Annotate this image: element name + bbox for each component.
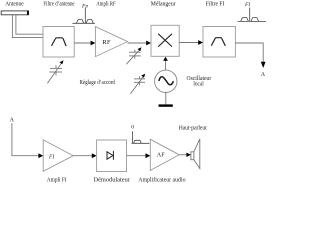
op-amp AF triangle: [150, 139, 179, 170]
antenna: [1, 11, 28, 15]
arrowhead up into mixer: [163, 57, 168, 61]
svg-text:local: local: [193, 82, 204, 88]
wire oscillator to ground: [165, 92, 167, 105]
wire FI amp to demodulator: [73, 155, 92, 157]
icon passband FI: [238, 8, 267, 22]
svg-text:Filtre FI: Filtre FI: [206, 1, 225, 7]
wire filter1 to RF amp: [74, 42, 91, 44]
block mixer: [151, 25, 179, 56]
arrowhead into FI filter: [198, 40, 203, 45]
svg-text:Ampli FI: Ampli FI: [47, 178, 67, 184]
svg-text:FI: FI: [48, 154, 55, 160]
bandpass curve (FI filter): [211, 38, 225, 46]
svg-text:Haut-parleur: Haut-parleur: [179, 125, 207, 131]
block demodulator: [97, 140, 127, 172]
trimmer capacitor under antenna filter: [47, 63, 62, 84]
op-amp RF triangle: [95, 27, 127, 57]
op-amp FI triangle: [43, 140, 73, 171]
svg-text:0: 0: [131, 125, 134, 131]
wire oscillator to mixer: [165, 60, 167, 70]
trimmer capacitor at oscillator: [130, 76, 145, 94]
bandpass curve (antenna filter): [52, 38, 67, 46]
wire FI filter output, right then down: [235, 43, 263, 62]
wire antenna lead (hollow): [12, 15, 43, 38]
ground: [159, 104, 173, 106]
icon passband Fp: [72, 9, 95, 24]
svg-text:RF: RF: [102, 40, 111, 46]
block antenna filter: [43, 27, 74, 58]
arrowhead into AF amp: [146, 153, 151, 158]
svg-text:Amplificateur audio: Amplificateur audio: [138, 176, 185, 183]
arrowhead down to A: [261, 62, 266, 68]
arrowhead into FI amp: [38, 153, 43, 158]
diode symbol: [107, 151, 113, 160]
speaker cone: [194, 139, 200, 169]
svg-text:Démodulateur: Démodulateur: [94, 177, 130, 183]
trimmer capacitor at mixer input: [126, 50, 141, 65]
wire from A down and right to FI amp: [12, 123, 39, 156]
wire mixer to FI filter: [179, 42, 199, 44]
svg-text:Mélangeur: Mélangeur: [151, 2, 176, 8]
wire RF amp to mixer: [128, 42, 147, 44]
arrowhead into speaker: [186, 153, 191, 157]
svg-text:Ampli RF: Ampli RF: [96, 1, 116, 7]
mixer X symbol: [158, 34, 172, 47]
svg-text:Fp: Fp: [81, 4, 88, 10]
oscillator circle U osc: [155, 70, 177, 92]
icon envelope waveform: [132, 131, 150, 143]
speaker driver: [191, 152, 194, 160]
svg-text:Antenne: Antenne: [5, 1, 24, 7]
svg-text:A: A: [10, 118, 15, 124]
wire demodulator to AF amp: [127, 155, 146, 157]
arrowhead into mixer: [146, 41, 151, 46]
sine wave inside oscillator: [159, 77, 174, 85]
arrowhead into demodulator: [92, 153, 97, 158]
svg-text:AF: AF: [157, 153, 165, 159]
svg-text:Réglage d’accord: Réglage d’accord: [80, 80, 115, 86]
svg-text:A: A: [261, 72, 266, 78]
arrowhead into RF amp: [91, 41, 96, 46]
svg-text:Filtre d’antenne: Filtre d’antenne: [43, 2, 74, 8]
block FI filter: [203, 27, 235, 58]
wire AF amp to speaker: [179, 154, 187, 156]
